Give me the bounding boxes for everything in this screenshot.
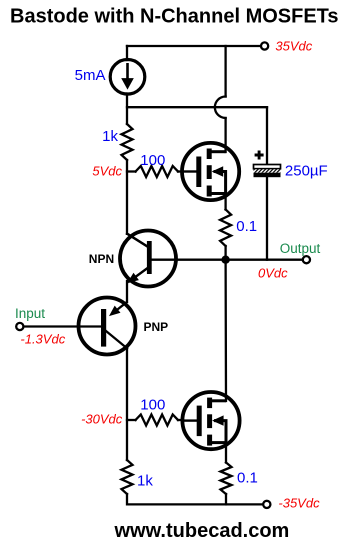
svg-text:1k: 1k	[137, 472, 153, 489]
svg-text:35Vdc: 35Vdc	[275, 39, 312, 54]
svg-text:PNP: PNP	[144, 320, 169, 334]
svg-text:0Vdc: 0Vdc	[258, 265, 288, 280]
svg-text:0.1: 0.1	[237, 470, 258, 487]
svg-text:100: 100	[140, 152, 165, 169]
svg-text:Input: Input	[15, 306, 45, 321]
svg-text:250µF: 250µF	[285, 163, 328, 180]
svg-text:-30Vdc: -30Vdc	[81, 412, 123, 427]
svg-text:100: 100	[140, 397, 165, 414]
svg-text:Bastode with N-Channel MOSFETs: Bastode with N-Channel MOSFETs	[10, 6, 339, 28]
svg-text:5Vdc: 5Vdc	[92, 164, 122, 179]
svg-text:1k: 1k	[102, 128, 118, 145]
svg-text:5mA: 5mA	[75, 67, 106, 84]
svg-text:Output: Output	[280, 241, 321, 256]
svg-text:-1.3Vdc: -1.3Vdc	[20, 332, 65, 347]
svg-text:-35Vdc: -35Vdc	[278, 496, 320, 511]
svg-text:www.tubecad.com: www.tubecad.com	[114, 520, 290, 542]
svg-text:NPN: NPN	[89, 252, 114, 266]
svg-text:0.1: 0.1	[236, 218, 257, 235]
